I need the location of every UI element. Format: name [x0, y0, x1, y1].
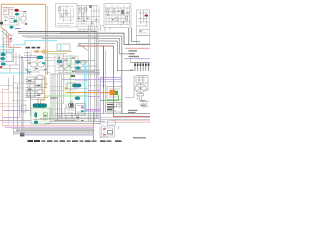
- wire magenta: [85, 109, 100, 111]
- triode V3: [80, 60, 86, 70]
- wire green long: [45, 95, 88, 97]
- wire orange feed to OT: [66, 92, 110, 94]
- bus main dark horizontal: [18, 30, 97, 32]
- node red dot small: [10, 38, 12, 39]
- bottom band grey3: [14, 131, 94, 133]
- left nest wires: [0, 54, 94, 134]
- connector pin strip: [130, 62, 150, 71]
- wire purple short: [15, 28, 21, 30]
- fuse red marks: [103, 128, 106, 129]
- wire connectors mid: [44, 58, 55, 73]
- wire cyan channel line: [0, 41, 57, 52]
- label note text right: [129, 50, 140, 57]
- wire purple band: [5, 126, 94, 128]
- capacitor bank teal bar: [33, 104, 47, 107]
- wire bundle bend top-right: [22, 28, 150, 117]
- block top-right rectifier E: [137, 10, 150, 44]
- small credit text: [133, 137, 146, 139]
- jack panel block: [106, 103, 123, 113]
- wire pale green: [50, 102, 64, 104]
- wire marks left-center: [24, 51, 37, 70]
- wire pink long right: [125, 47, 150, 49]
- node dashes lower: [44, 115, 84, 121]
- wire stubs below blocks: [101, 26, 110, 32]
- wire purple vertical bottombands: [93, 112, 95, 140]
- component dark rect: [121, 10, 124, 14]
- tube dark blob: [69, 103, 75, 107]
- knob labels dark: [26, 47, 41, 49]
- capacitor C12 (teal big): [73, 84, 82, 87]
- node dashes vibrato rows: [28, 63, 47, 73]
- box driver aux: [52, 109, 62, 116]
- wire cyan lower: [0, 46, 8, 48]
- LDR teal dot: [81, 110, 83, 112]
- junction blob: [20, 133, 25, 137]
- wire grey h-runs center: [50, 61, 100, 75]
- resistor R9 marks: [139, 30, 142, 32]
- region pale green: [64, 77, 75, 95]
- capacitor C14 (teal small vert): [35, 113, 37, 118]
- capacitor C11 (teal): [76, 67, 80, 70]
- wire purple mid: [21, 56, 38, 58]
- wire purple right pair: [100, 76, 122, 78]
- wire dark vertical block edge: [30, 92, 32, 116]
- resistor orange dot: [65, 87, 67, 89]
- component dark top: [70, 75, 75, 77]
- wire tan pair center: [33, 51, 72, 53]
- vibrato channel block center-left lower: [25, 75, 48, 104]
- green highlight box (bias): [31, 108, 50, 124]
- bottom band grey1: [12, 128, 94, 130]
- block top-center chassis A: [56, 4, 78, 28]
- diode D1 (red): [145, 15, 148, 17]
- wire right lower greys: [100, 119, 150, 121]
- capacitor C6 (teal): [1, 57, 5, 60]
- wire cyan footswitch: [60, 44, 62, 51]
- caption text bottom: [28, 140, 122, 142]
- wire grey mesh below input: [2, 28, 14, 48]
- capacitor C4 (teal) mid-left: [10, 26, 14, 29]
- capacitor C13 (teal): [75, 97, 80, 100]
- capacitor C2 (teal): [15, 13, 19, 15]
- wire diagonal feed: [78, 44, 88, 51]
- wire cyan vertical center: [85, 62, 86, 115]
- label marks vibrato: [28, 80, 40, 96]
- capacitor C1 (red): [15, 9, 19, 12]
- wire cyan bottom channel: [0, 72, 28, 74]
- resistor R3 (red dot): [0, 66, 2, 68]
- wire thin crossers: [75, 81, 107, 89]
- wire purple trem lines: [88, 90, 100, 96]
- node input circuit top-left: [3, 8, 21, 26]
- LDR magenta dot: [81, 106, 83, 108]
- diode green box: [44, 113, 48, 117]
- component orange cap X1: [110, 90, 115, 95]
- AC cord block right: [139, 101, 149, 109]
- node extra parts right of caps: [19, 12, 26, 24]
- bottom band pink: [3, 125, 94, 127]
- wire orange lower vertical: [41, 75, 45, 104]
- capacitor C9 (teal small): [57, 60, 62, 63]
- driver block lower-center: [58, 100, 76, 121]
- speaker jack block right: [107, 87, 122, 100]
- wire purple vertical right: [99, 77, 101, 125]
- wire purple lower: [85, 110, 100, 112]
- output transformer T1: [125, 76, 149, 101]
- wire green verticals: [64, 53, 71, 104]
- capacitor teal dash: [42, 62, 45, 64]
- trem oscillator marks: [67, 83, 76, 89]
- tone stack left-middle: [0, 39, 20, 74]
- node tube pins CD: [107, 11, 129, 24]
- wire lavender long right: [124, 58, 150, 60]
- block top-center CD: [104, 4, 131, 28]
- wire pink right lower: [113, 120, 150, 122]
- node tube pins B: [78, 18, 97, 24]
- bottom band grey2: [16, 129, 94, 131]
- wire orange vertical feed: [46, 50, 48, 75]
- wire salmon riser: [9, 33, 22, 48]
- bottom band lavender: [24, 134, 94, 136]
- capacitor C5 (teal): [1, 53, 5, 56]
- triode V2 pair: [25, 51, 45, 76]
- block top-center tubes B: [76, 5, 99, 29]
- relay box left: [22, 105, 27, 112]
- wire stubs to bus: [80, 29, 92, 33]
- capacitor C15 (teal dot): [34, 121, 38, 124]
- maroon vertical: [102, 46, 104, 88]
- highlight box (orange) around preamp section: [1, 4, 47, 50]
- standby box bottom-right: [100, 121, 120, 139]
- node jack marks left edge: [0, 22, 3, 25]
- component green cap X2: [115, 91, 118, 95]
- capacitor C7 (teal): [1, 63, 5, 66]
- wire dark stub: [50, 97, 58, 99]
- capacitor C10 (teal): [76, 61, 80, 64]
- wire comb feed: [131, 59, 133, 63]
- bottom band grey4: [20, 133, 94, 135]
- wire pink input: [3, 8, 14, 16]
- bus vertical bundle left-center: [51, 75, 62, 123]
- bias wires: [33, 117, 48, 124]
- phase inverter block center: [55, 56, 78, 74]
- capacitor C8 (teal bar): [37, 56, 43, 59]
- trem block small: [76, 104, 86, 116]
- capacitor C3 (teal): [13, 20, 17, 22]
- wire lavender: [62, 79, 122, 81]
- wire purple center: [75, 72, 100, 74]
- node dark contact: [89, 5, 91, 8]
- footswitch box: [57, 44, 70, 51]
- bottom wire corners lower-center: [40, 114, 150, 124]
- bus vertical bundle center-right: [89, 25, 98, 122]
- wire green right vertical: [100, 95, 118, 101]
